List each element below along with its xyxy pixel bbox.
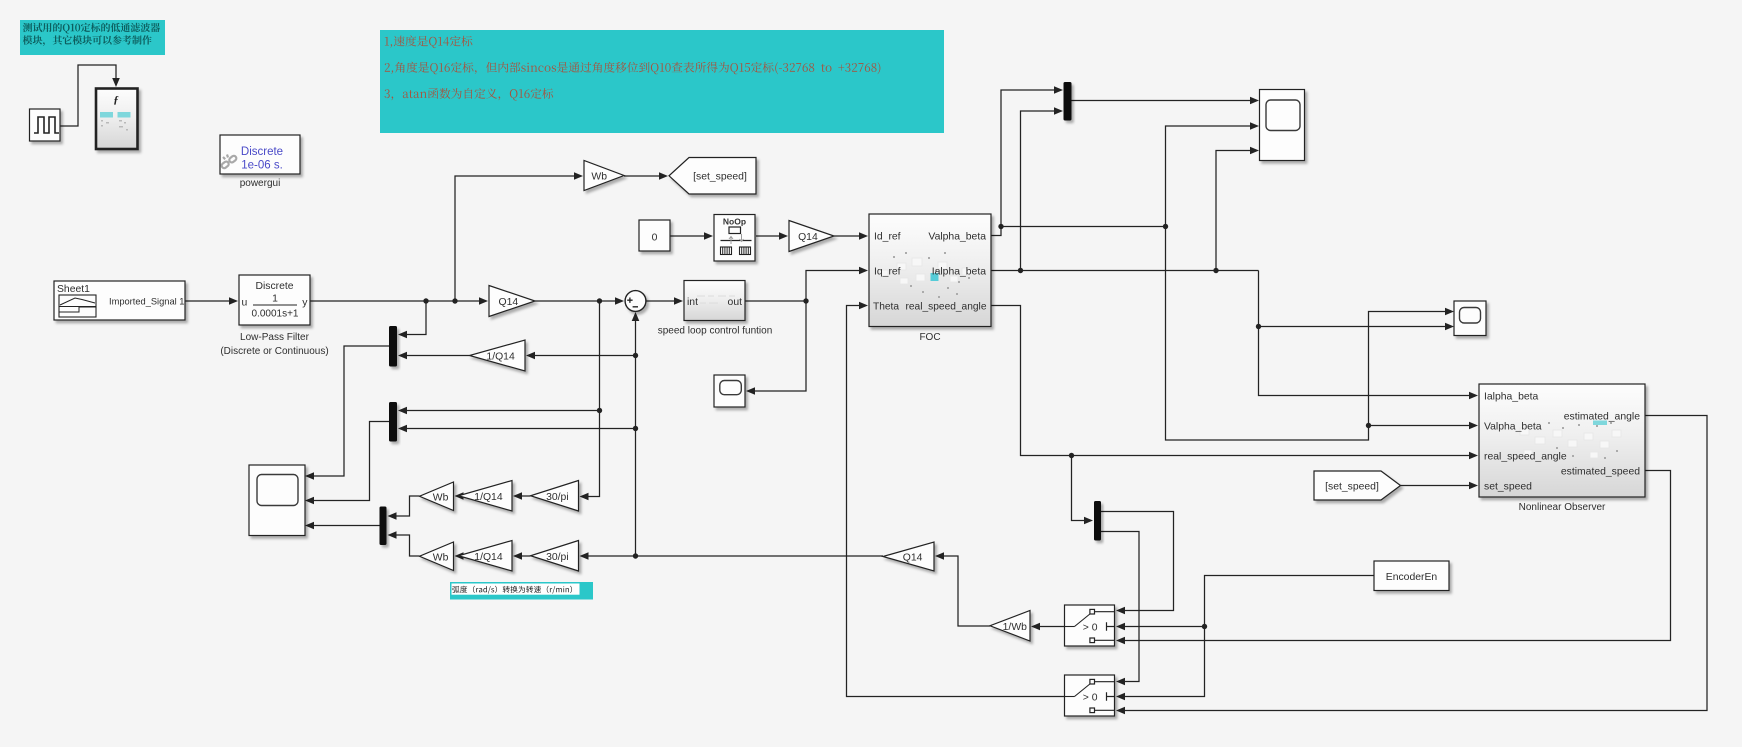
svg-text:out: out xyxy=(728,297,743,308)
wire mux D out to scope1 input 1 xyxy=(1072,97,1260,105)
svg-text:1/Q14: 1/Q14 xyxy=(474,492,503,503)
scope speed loop xyxy=(714,375,745,407)
subsystem block top-left xyxy=(96,89,138,150)
annotation text top-left line2 xyxy=(23,35,152,46)
wire Valpha_beta branch into observer input xyxy=(1369,422,1479,430)
svg-text:Id_ref: Id_ref xyxy=(874,232,901,243)
wire mux A out to scope3 input 1 xyxy=(305,346,389,480)
wire 30/pi row1 to 1/Q14 row1 xyxy=(513,492,531,500)
gain Q14 idref xyxy=(789,221,834,252)
from tag set_speed xyxy=(1314,471,1401,500)
FOC label xyxy=(919,332,940,343)
EncoderEn block xyxy=(1374,561,1449,591)
goto tag set_speed xyxy=(669,158,756,195)
wire Q14 output down to mux B and 30/pi row1 xyxy=(580,301,603,500)
svg-text:EncoderEn: EncoderEn xyxy=(1386,572,1438,583)
svg-text:real_speed_angle: real_speed_angle xyxy=(905,302,986,313)
svg-text:int: int xyxy=(687,297,698,308)
FOC subsystem block xyxy=(869,214,991,327)
svg-text:Ialpha_beta: Ialpha_beta xyxy=(1484,392,1539,403)
constant 0 block xyxy=(639,220,670,251)
wire branch to mux A input 1 xyxy=(398,301,426,338)
svg-text:Wb: Wb xyxy=(433,492,449,503)
svg-text:Valpha_beta: Valpha_beta xyxy=(928,232,986,243)
scope 3 xyxy=(249,465,305,536)
gain 1/Q14 row2 xyxy=(459,541,513,572)
wire 1/Wb out to Q14 left gain xyxy=(935,552,990,626)
svg-text:Sheet1: Sheet1 xyxy=(57,284,90,295)
Nonlinear Observer block xyxy=(1479,384,1645,497)
sum block xyxy=(625,291,646,312)
wire NoOp to Q14 gain 2 xyxy=(756,232,788,240)
gain Q14 main xyxy=(489,286,535,317)
svg-text:1/Q14: 1/Q14 xyxy=(486,352,515,363)
wire Ialpha_beta branch to scope2 input 2 xyxy=(1259,323,1455,331)
svg-text:0.0001s+1: 0.0001s+1 xyxy=(252,309,299,320)
svg-text:Discrete: Discrete xyxy=(241,146,283,158)
annotation text top-left line1 xyxy=(23,23,160,34)
annotation big line2 xyxy=(385,62,881,75)
wire demux out 1 to switch1 input 1 xyxy=(1101,512,1174,615)
svg-text:Q14: Q14 xyxy=(798,232,818,243)
svg-text:Wb: Wb xyxy=(591,172,607,183)
gain Wb top xyxy=(584,161,624,191)
wire FOC Valpha_beta up to mux D input 1 xyxy=(991,86,1063,235)
wire Ialpha_beta down to scope2 and observer xyxy=(1256,271,1478,400)
annotation note big xyxy=(380,30,944,133)
wire From set_speed to observer xyxy=(1401,482,1479,490)
wire Ialpha_beta up to mux D input 2 xyxy=(1021,107,1064,270)
svg-text:Q14: Q14 xyxy=(498,297,518,308)
gain 30/pi row2 xyxy=(531,541,579,572)
wire Wb row2 to mux C input 2 xyxy=(388,531,420,556)
svg-text:> 0: > 0 xyxy=(1083,623,1098,634)
wire FOC Ialpha_beta main run xyxy=(991,268,1259,273)
scope 1 xyxy=(1260,90,1305,161)
wire Q14 gain 2 to FOC Id_ref xyxy=(834,232,868,240)
svg-text:Iq_ref: Iq_ref xyxy=(874,267,901,278)
svg-text:> 0: > 0 xyxy=(1083,693,1098,704)
svg-text:Q14: Q14 xyxy=(903,553,923,564)
wire switch2 out to FOC Theta xyxy=(847,302,1065,697)
wire Ialpha_beta up to scope1 input 3 xyxy=(1216,147,1259,271)
gain 1/Wb xyxy=(990,611,1030,642)
wire feedback branch to 1/Q14 top gain xyxy=(526,352,636,360)
svg-text:estimated_speed: estimated_speed xyxy=(1561,467,1640,478)
wire speed loop out to FOC Iq_ref and scope xyxy=(745,267,868,395)
switch 2 xyxy=(1065,675,1115,716)
gain 1/Q14 row1 xyxy=(459,481,513,512)
svg-text:NoOp: NoOp xyxy=(723,217,746,227)
svg-text:Theta: Theta xyxy=(873,302,899,313)
mux D xyxy=(1064,82,1072,121)
svg-text:ƒ: ƒ xyxy=(113,94,119,106)
svg-text:30/pi: 30/pi xyxy=(546,492,569,503)
wire branch up to Wb gain xyxy=(455,172,583,301)
switch 1 xyxy=(1065,605,1115,646)
annotation rad-to-rpm text xyxy=(452,586,572,594)
NoOp block xyxy=(714,215,755,262)
scope 2 xyxy=(1454,301,1486,336)
wire Constant 0 to NoOp xyxy=(670,232,713,240)
annotation note rad-to-rpm xyxy=(450,582,593,600)
wire 1/Q14 top out to mux A input 2 xyxy=(398,352,470,360)
svg-text:Low-Pass Filter: Low-Pass Filter xyxy=(240,332,310,343)
svg-text:1e-06 s.: 1e-06 s. xyxy=(241,160,283,172)
svg-text:estimated_angle: estimated_angle xyxy=(1564,412,1640,423)
wire Wb row1 to mux C input 1 xyxy=(388,496,420,520)
svg-text:powergui: powergui xyxy=(240,178,281,189)
mux A xyxy=(389,326,397,367)
svg-text:Imported_Signal 1: Imported_Signal 1 xyxy=(109,297,184,307)
svg-text:(Discrete or Continuous): (Discrete or Continuous) xyxy=(220,346,328,357)
Nonlinear Observer label xyxy=(1519,502,1606,513)
svg-text:Discrete: Discrete xyxy=(255,281,293,292)
Low-Pass Filter block xyxy=(239,275,310,325)
annotation big line3 xyxy=(385,88,554,100)
svg-text:Nonlinear Observer: Nonlinear Observer xyxy=(1519,502,1606,513)
mux C xyxy=(380,507,387,546)
wire feedback branch to mux B input 2 xyxy=(398,425,636,433)
powergui label xyxy=(240,178,281,189)
wire Sum to speed loop control block xyxy=(646,297,683,305)
svg-text:Valpha_beta: Valpha_beta xyxy=(1484,422,1542,433)
gain Wb row1 xyxy=(420,482,454,511)
gain Wb row2 xyxy=(420,542,454,571)
wire EncoderEn branch to switch1 input 2 xyxy=(1116,623,1205,631)
gain Q14 feedback xyxy=(883,542,934,571)
wire observer estimated_speed to switch1 input 3 xyxy=(1116,471,1671,645)
annotation note top-left xyxy=(20,20,165,55)
wire pulse generator to subsystem xyxy=(60,65,120,126)
svg-text:[set_speed]: [set_speed] xyxy=(1325,482,1379,493)
svg-text:Wb: Wb xyxy=(433,552,449,563)
svg-text:y: y xyxy=(302,298,308,309)
wire branch to mux B input 1 xyxy=(398,407,600,415)
svg-text:1/Wb: 1/Wb xyxy=(1003,622,1027,633)
wire Low-Pass Filter to Q14 gain xyxy=(310,297,488,305)
svg-text:FOC: FOC xyxy=(919,332,940,343)
svg-text:30/pi: 30/pi xyxy=(546,552,569,563)
wire switch1 out to 1/Wb gain xyxy=(1031,623,1065,631)
svg-text:0: 0 xyxy=(652,233,658,244)
svg-text:u: u xyxy=(242,298,248,309)
Low-Pass Filter label xyxy=(220,332,328,357)
wire 1/Q14 row2 to Wb row2 xyxy=(455,552,464,560)
wire mux C out to scope3 input 3 xyxy=(305,522,380,530)
wire Sheet1 to Low-Pass Filter xyxy=(185,297,238,305)
wire Valpha_beta branch right xyxy=(1001,224,1168,229)
wire mux B out to scope3 input 2 xyxy=(305,422,389,505)
wire real_speed_angle branch to demux xyxy=(1072,456,1094,525)
wire EncoderEn to switch controls xyxy=(1116,576,1374,701)
Sheet1 block xyxy=(54,281,185,320)
wire demux out 2 to switch2 input 1 xyxy=(1101,532,1139,686)
gain 30/pi row1 xyxy=(531,481,579,512)
svg-text:Ialpha_beta: Ialpha_beta xyxy=(932,267,987,278)
wire Wb gain to Goto set_speed xyxy=(624,172,668,180)
svg-text:set_speed: set_speed xyxy=(1484,482,1532,493)
mux B xyxy=(389,402,397,442)
svg-text:real_speed_angle: real_speed_angle xyxy=(1484,452,1567,463)
wire 1/Q14 row1 to Wb row1 xyxy=(455,492,464,500)
pulse generator block xyxy=(30,109,61,141)
powergui block xyxy=(220,135,300,174)
wire observer estimated_angle to switch2 input 3 xyxy=(1116,416,1707,715)
annotation big line1 xyxy=(385,36,473,49)
speed loop control block xyxy=(684,281,745,321)
wire Q14 left gain out to 30/pi row2 xyxy=(580,552,884,560)
wire Q14 gain to Sum xyxy=(535,297,624,305)
wire feedback vertical to Sum minus xyxy=(632,312,640,556)
svg-text:speed loop control funtion: speed loop control funtion xyxy=(658,326,773,337)
svg-text:1: 1 xyxy=(272,294,278,305)
wire Valpha_beta vertical to scope1 input 2 xyxy=(1166,122,1260,226)
svg-text:1/Q14: 1/Q14 xyxy=(474,552,503,563)
svg-text:[set_speed]: [set_speed] xyxy=(693,172,747,183)
wire Valpha_beta down to observer xyxy=(1166,227,1455,441)
wire FOC real_speed_angle to observer xyxy=(991,306,1478,460)
wire 30/pi row2 to 1/Q14 row2 xyxy=(513,552,531,560)
gain 1/Q14 top xyxy=(470,340,526,371)
demux xyxy=(1094,501,1101,541)
speed loop control label xyxy=(658,326,773,337)
